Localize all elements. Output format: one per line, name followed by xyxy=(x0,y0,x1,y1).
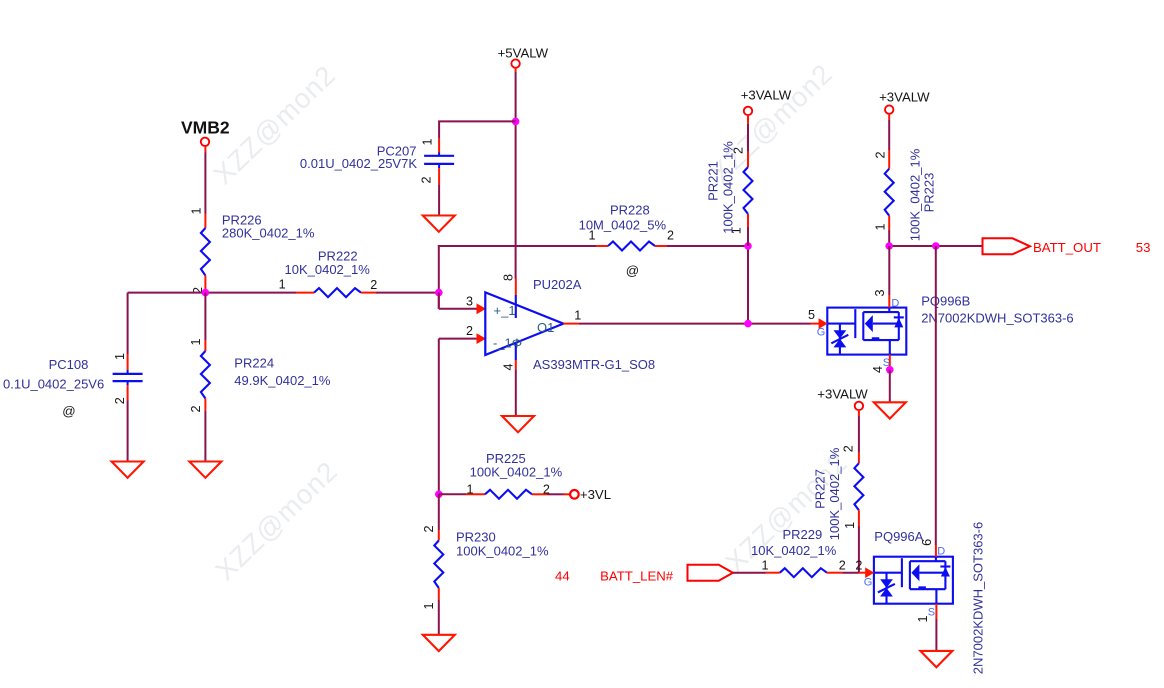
wire PR229 to gate xyxy=(842,572,859,574)
wire PR225 to +3VL xyxy=(548,493,564,495)
node junction PQ996B source xyxy=(886,366,894,374)
svg-text:@: @ xyxy=(626,263,639,278)
resistor PR221 xyxy=(744,167,753,214)
svg-text:O1: O1 xyxy=(537,320,554,335)
op-amp U PU202A pin2 arrow xyxy=(477,333,487,344)
wire opamp pin2 column down to PR230 junction xyxy=(438,339,440,495)
svg-text:4: 4 xyxy=(502,363,516,370)
wire junction to PR225 xyxy=(439,493,466,495)
svg-text:+_1: +_1 xyxy=(494,303,516,318)
svg-text:0.01U_0402_25V7K: 0.01U_0402_25V7K xyxy=(300,156,417,171)
svg-text:280K_0402_1%: 280K_0402_1% xyxy=(222,226,315,241)
svg-text:@: @ xyxy=(62,404,75,419)
wire +5VALW drop to opamp pin8 xyxy=(515,68,517,72)
svg-text:53: 53 xyxy=(1136,240,1151,255)
node junction output/PR221 column xyxy=(744,320,752,328)
op-amp U PU202A pin3 arrow xyxy=(477,303,487,314)
wire +3VALW to PR221 xyxy=(747,115,749,124)
svg-text:1: 1 xyxy=(190,207,204,214)
wire VMB2 drop xyxy=(204,146,206,153)
wire PC207 to ground xyxy=(438,184,440,215)
svg-text:10K_0402_1%: 10K_0402_1% xyxy=(285,262,371,277)
transistor PQ996B gate arrow xyxy=(819,318,828,329)
wire PC207 branch xyxy=(439,121,515,138)
resistor PR222 pin2 stub xyxy=(361,292,376,294)
svg-text:PR221: PR221 xyxy=(706,161,721,201)
wire PR221 junction down to output rail xyxy=(747,246,749,324)
ground under PC108 xyxy=(112,462,144,478)
wire long drop to PQ996A drain xyxy=(935,246,937,545)
svg-text:PC108: PC108 xyxy=(49,357,89,372)
svg-text:2: 2 xyxy=(543,483,550,497)
wire opamp output rail y=323.6 xyxy=(563,323,579,325)
wire opamp pin2 lead xyxy=(439,338,478,340)
wire PR221 to junction xyxy=(747,227,749,246)
capacitor PC207 xyxy=(424,156,454,164)
svg-text:G: G xyxy=(817,326,826,338)
svg-text:2N7002KDWH_SOT363-6: 2N7002KDWH_SOT363-6 xyxy=(971,522,986,674)
resistor PR224 pin1 stub xyxy=(204,340,206,351)
svg-text:5: 5 xyxy=(808,308,815,322)
transistor Q PQ996B xyxy=(827,308,906,355)
svg-text:100K_0402_1%: 100K_0402_1% xyxy=(721,141,736,234)
wire gate stub PQ996B xyxy=(811,323,820,325)
svg-text:1: 1 xyxy=(189,338,203,345)
svg-text:100K_0402_1%: 100K_0402_1% xyxy=(827,447,842,540)
wire +3VALW to PR227 xyxy=(858,410,860,416)
resistor PR224 pin2 stub xyxy=(204,399,206,412)
resistor PR225 xyxy=(485,490,532,499)
resistor PR221 pin1 stub xyxy=(747,214,749,227)
power +3VL xyxy=(570,487,611,502)
node junction feedback / PR222 column xyxy=(435,289,443,297)
power +3VALW right column xyxy=(879,89,930,113)
wire PQ996B source stub xyxy=(889,355,891,370)
svg-text:4: 4 xyxy=(871,366,885,373)
ground under op-amp xyxy=(502,416,534,432)
ground under PQ996A xyxy=(920,651,952,667)
svg-text:3: 3 xyxy=(873,289,887,296)
resistor PR223 pin1 stub xyxy=(888,216,890,230)
svg-text:PR229: PR229 xyxy=(783,527,823,542)
svg-text:PR230: PR230 xyxy=(456,530,496,545)
svg-text:1: 1 xyxy=(279,278,286,292)
ground under PR230 xyxy=(423,635,455,651)
wire PR228 to PR221 junction xyxy=(667,245,748,247)
resistor PR227 pin2 stub xyxy=(858,453,860,464)
svg-text:BATT_OUT: BATT_OUT xyxy=(1033,240,1101,255)
svg-text:PQ996B: PQ996B xyxy=(921,293,970,308)
transistor PQ996A gate arrow xyxy=(865,567,874,578)
net VMB2 power symbol xyxy=(181,118,230,147)
svg-text:2: 2 xyxy=(842,445,856,452)
resistor PR222 pin1 stub xyxy=(296,292,314,294)
power +5VALW xyxy=(498,45,549,67)
svg-text:0.1U_0402_25V6: 0.1U_0402_25V6 xyxy=(3,377,104,392)
power +3VALW left column xyxy=(741,88,792,116)
resistor PR226 pin2 stub xyxy=(204,276,206,292)
node junction +5VALW / PC207 xyxy=(512,118,520,126)
wire BATT_LEN# to PR229 xyxy=(733,572,766,574)
resistor PR230 pin1 stub xyxy=(438,588,440,600)
wire PR224 to ground xyxy=(204,411,206,462)
op-amp U1 PU202A triangle xyxy=(485,292,563,355)
svg-text:PR224: PR224 xyxy=(234,356,274,371)
wire PR222 to opamp column xyxy=(376,292,439,294)
svg-text:PR222: PR222 xyxy=(318,248,358,263)
capacitor PC207 pin1 stub xyxy=(438,138,440,153)
watermarks xyxy=(207,58,853,587)
resistor PR221 pin2 stub xyxy=(747,152,749,167)
wire PQ996A source stub xyxy=(935,604,937,619)
svg-text:2: 2 xyxy=(839,558,846,572)
resistor PR230 xyxy=(434,541,443,589)
resistor PR230 pin2 stub xyxy=(438,530,440,541)
wire PR224 branch xyxy=(204,293,206,340)
resistor PR229 pin2 stub xyxy=(827,572,843,574)
wire PC108 branch xyxy=(127,293,129,354)
svg-text:+3VALW: +3VALW xyxy=(879,89,930,104)
svg-text:-_1Φ: -_1Φ xyxy=(493,336,522,351)
node junction at PR226 bottom xyxy=(202,289,210,297)
node junction feedback/PR221 xyxy=(744,242,752,250)
svg-text:100K_0402_1%: 100K_0402_1% xyxy=(470,464,563,479)
wire PC108 to ground xyxy=(127,401,129,462)
ground under PQ996B xyxy=(874,402,906,418)
svg-text:+3VALW: +3VALW xyxy=(817,387,868,402)
svg-text:PU202A: PU202A xyxy=(533,277,582,292)
svg-text:2N7002KDWH_SOT363-6: 2N7002KDWH_SOT363-6 xyxy=(921,310,1073,325)
svg-text:+3VALW: +3VALW xyxy=(741,88,792,103)
svg-text:10M_0402_5%: 10M_0402_5% xyxy=(579,217,667,232)
svg-text:10K_0402_1%: 10K_0402_1% xyxy=(751,543,837,558)
svg-text:8: 8 xyxy=(502,274,516,281)
op-amp pin4 lead blue xyxy=(515,343,517,360)
node junction rail/long drop xyxy=(932,242,940,250)
svg-text:100K_0402_1%: 100K_0402_1% xyxy=(456,544,549,559)
svg-text:1: 1 xyxy=(916,615,930,622)
svg-text:PR228: PR228 xyxy=(610,202,650,217)
wire PQ996B source to ground xyxy=(889,370,891,403)
resistor PR227 pin1 stub xyxy=(858,510,860,526)
svg-text:49.9K_0402_1%: 49.9K_0402_1% xyxy=(234,373,331,388)
resistor PR228 xyxy=(608,242,655,251)
resistor PR222 xyxy=(314,288,361,297)
resistor PR228 pin2 stub xyxy=(655,245,667,247)
resistor PR229 xyxy=(780,568,827,577)
op-amp pin8 lead blue xyxy=(515,279,517,296)
svg-text:1: 1 xyxy=(762,558,769,572)
wire PQ996B drain drop xyxy=(888,246,890,295)
svg-text:G: G xyxy=(864,577,873,589)
svg-text:2: 2 xyxy=(855,559,862,573)
resistor PR225 pin1 stub xyxy=(466,493,485,495)
ground under PR224 xyxy=(189,462,221,478)
resistor PR223 xyxy=(885,169,894,216)
port BATT_LEN# xyxy=(555,565,733,584)
svg-text:BATT_LEN#: BATT_LEN# xyxy=(600,568,674,583)
resistor PR228 pin1 stub xyxy=(596,245,608,247)
svg-text:+5VALW: +5VALW xyxy=(498,45,549,60)
wire opamp pin4 to ground xyxy=(515,369,517,416)
wire PR223 to BATT_OUT rail xyxy=(888,230,890,246)
resistor PR226 xyxy=(201,228,210,276)
resistor PR225 pin2 stub xyxy=(532,493,548,495)
svg-text:PR227: PR227 xyxy=(813,469,828,509)
wire PQ996A source to ground xyxy=(935,619,937,651)
svg-text:2: 2 xyxy=(466,324,473,338)
svg-text:3: 3 xyxy=(466,294,473,308)
svg-text:1: 1 xyxy=(874,223,888,230)
resistor PR229 pin1 stub xyxy=(766,572,780,574)
capacitor PC108 pin2 stub xyxy=(127,381,129,385)
wire feedback rail y=246 xyxy=(439,246,596,309)
capacitor PC108 xyxy=(113,374,143,381)
svg-text:1: 1 xyxy=(422,602,436,609)
wire +3VALW to PR223 xyxy=(888,114,890,120)
capacitor PC207 pin2 stub xyxy=(438,165,440,168)
svg-text:D: D xyxy=(937,546,945,558)
svg-text:2: 2 xyxy=(370,278,377,292)
resistor PR223 pin2 stub xyxy=(888,150,890,169)
svg-text:2: 2 xyxy=(422,525,436,532)
svg-text:2: 2 xyxy=(874,151,888,158)
svg-text:+3VL: +3VL xyxy=(580,487,611,502)
svg-text:2: 2 xyxy=(420,176,434,183)
svg-text:1: 1 xyxy=(843,522,857,529)
wire opamp pin3 lead xyxy=(438,293,440,309)
svg-text:1: 1 xyxy=(467,483,474,497)
svg-text:2: 2 xyxy=(189,405,203,412)
wire PR227 to gate rail xyxy=(858,526,860,573)
power +3VALW middle xyxy=(817,387,868,411)
node junction PR225/PR230 xyxy=(435,491,443,499)
svg-text:1: 1 xyxy=(574,308,581,322)
svg-text:VMB2: VMB2 xyxy=(181,118,230,138)
svg-text:D: D xyxy=(891,298,899,310)
wire junction down to PR230 xyxy=(438,494,440,530)
svg-text:PR223: PR223 xyxy=(922,173,937,213)
svg-text:PQ996A: PQ996A xyxy=(874,529,923,544)
resistor PR224 xyxy=(201,351,210,399)
svg-text:2: 2 xyxy=(667,229,674,243)
ground under PC207 xyxy=(423,216,455,232)
node junction PR223/pin3 xyxy=(885,242,893,250)
port BATT_OUT xyxy=(983,238,1151,255)
capacitor PC108 pin1 stub xyxy=(127,354,129,370)
svg-text:1: 1 xyxy=(421,138,435,145)
svg-text:100K_0402_1%: 100K_0402_1% xyxy=(908,148,923,241)
svg-text:44: 44 xyxy=(555,568,570,583)
wire PR230 to ground xyxy=(438,600,440,635)
resistor PR226 pin1 stub xyxy=(204,214,206,229)
svg-text:1: 1 xyxy=(113,353,127,360)
wire horizontal bus y=292.6 xyxy=(128,292,296,294)
transistor Q PQ996A xyxy=(874,557,953,604)
svg-text:2: 2 xyxy=(113,397,127,404)
svg-text:AS393MTR-G1_SO8: AS393MTR-G1_SO8 xyxy=(533,357,655,372)
resistor PR227 xyxy=(854,463,863,510)
wire BATT_OUT rail xyxy=(889,245,982,247)
